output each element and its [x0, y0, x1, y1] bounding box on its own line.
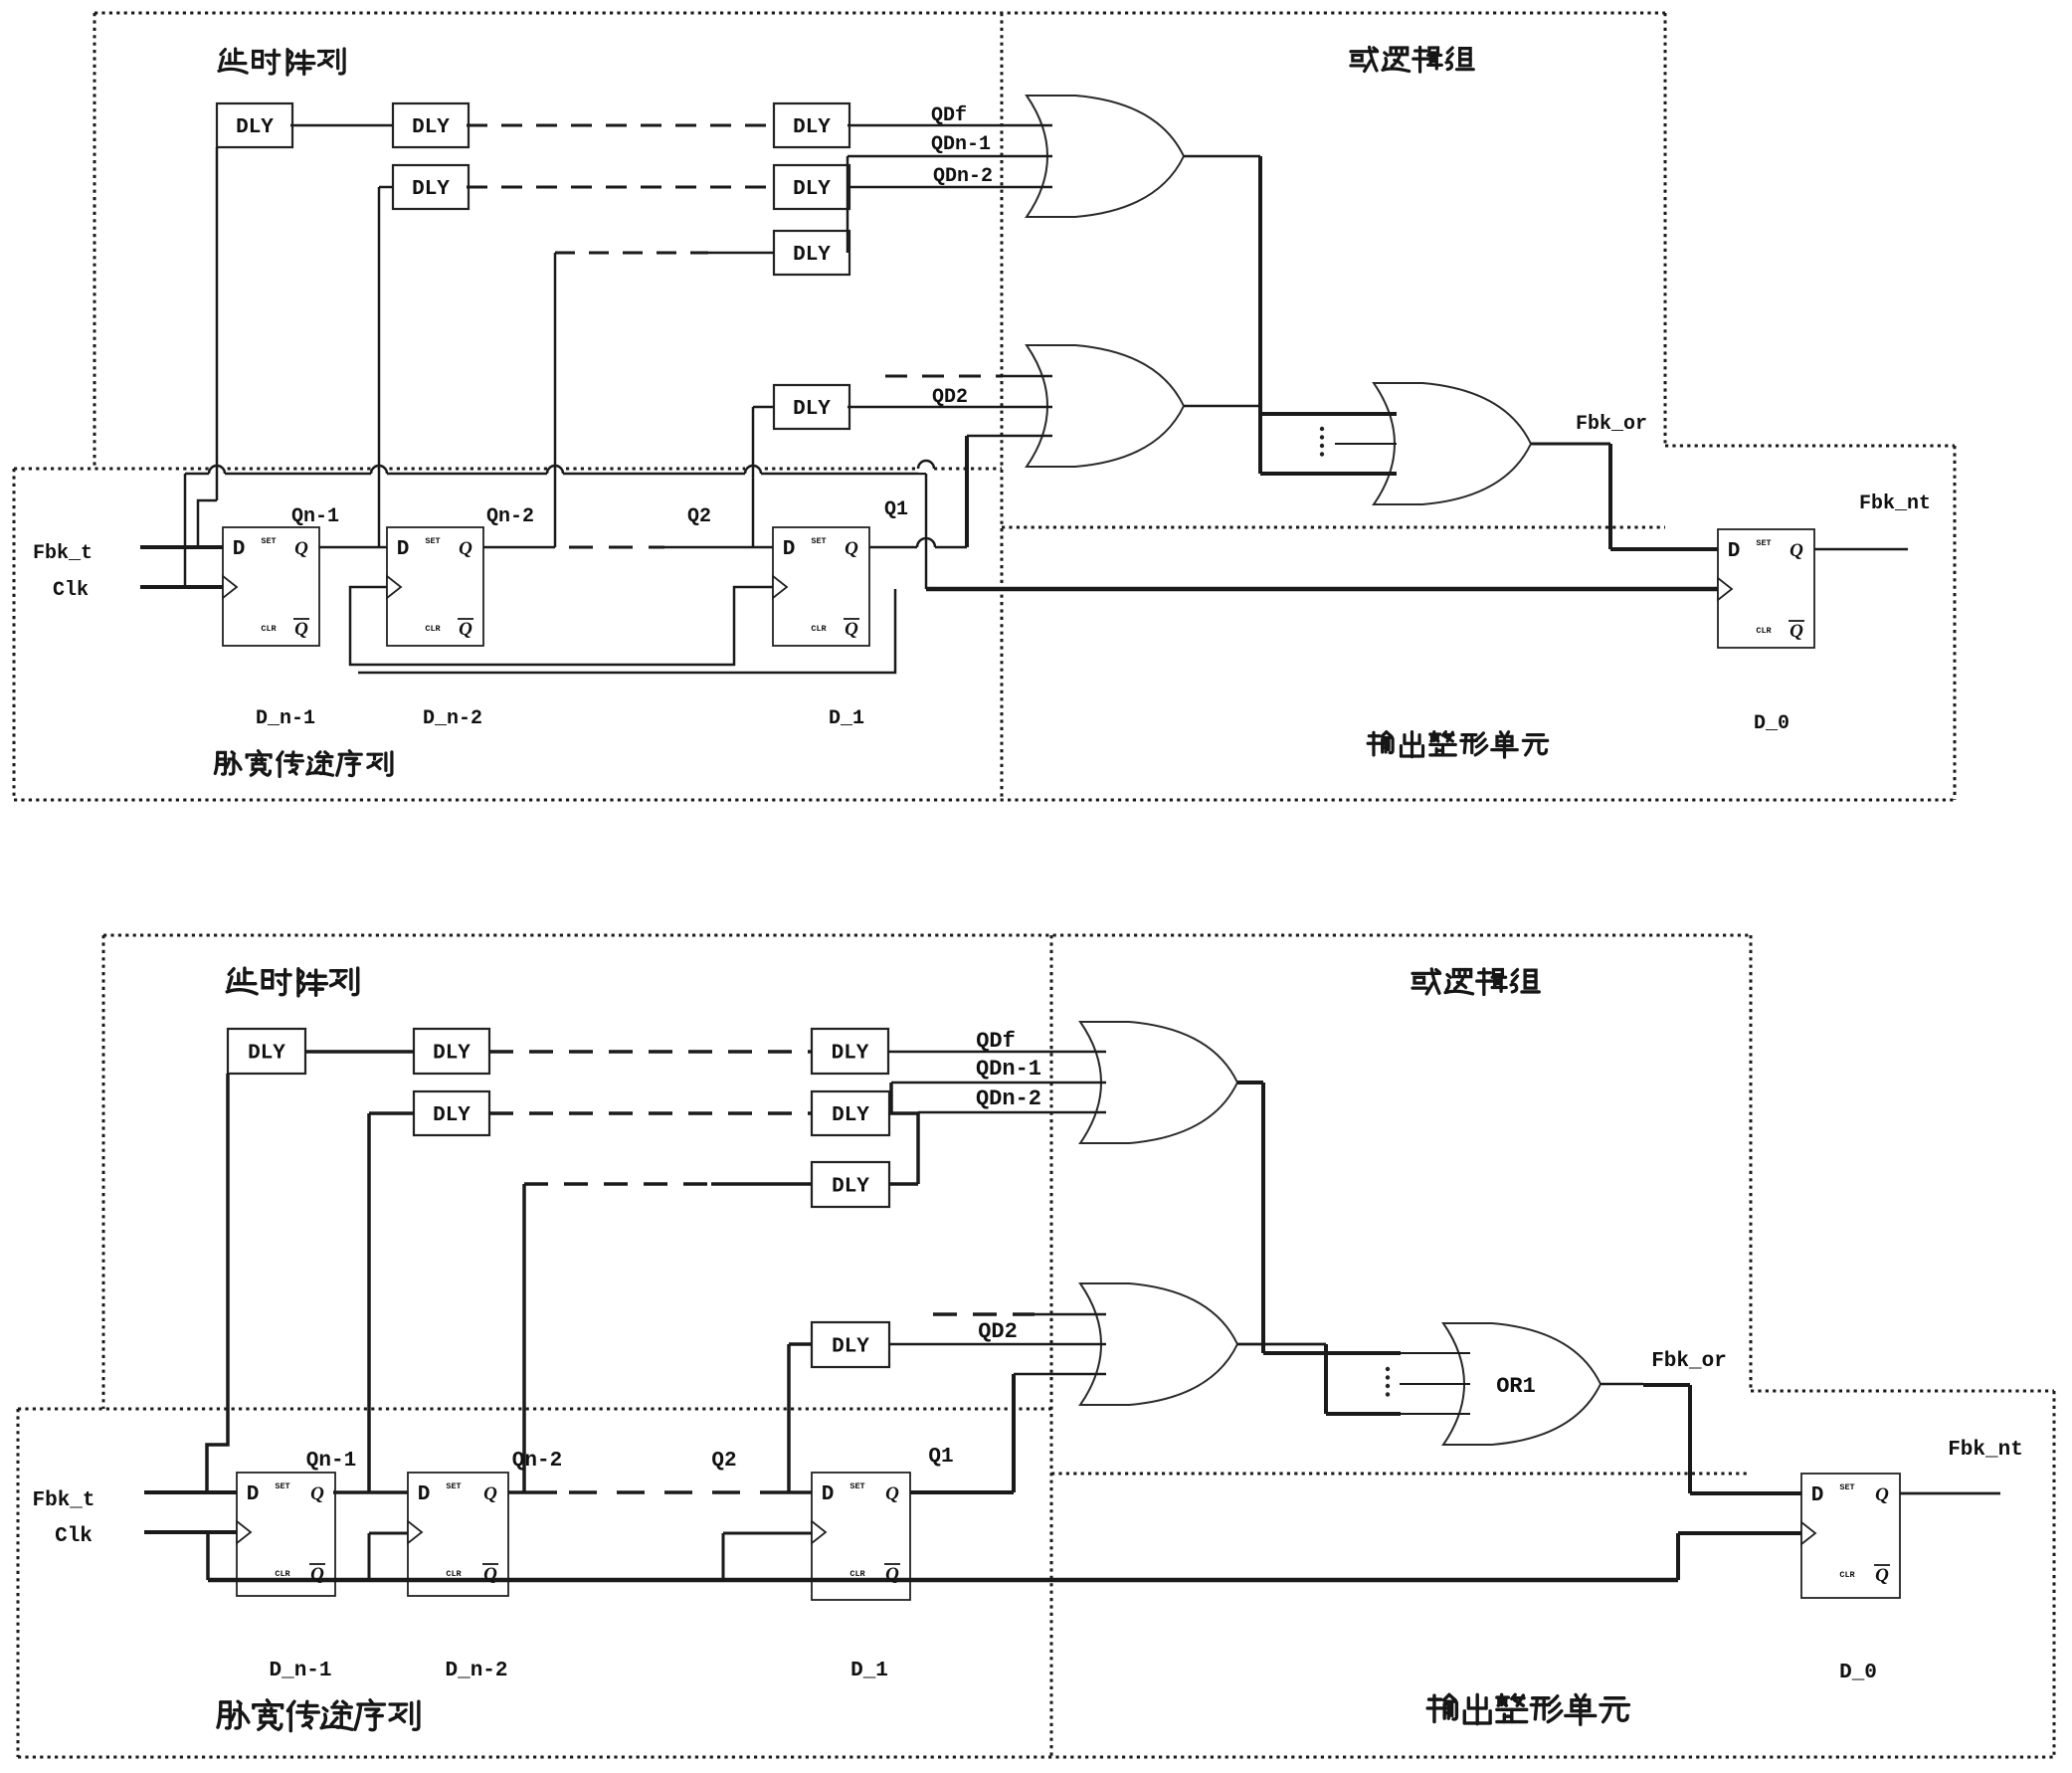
svg-text:Q: Q	[1789, 621, 1803, 642]
svg-text:Q1: Q1	[928, 1446, 953, 1469]
svg-text:CLR: CLR	[275, 1569, 290, 1579]
svg-text:Q1: Q1	[884, 498, 908, 521]
svg-text:SET: SET	[849, 1481, 864, 1491]
svg-text:D_1: D_1	[850, 1660, 888, 1682]
svg-text:CLR: CLR	[261, 624, 277, 634]
svg-text:QDf: QDf	[931, 104, 967, 127]
svg-text:OR1: OR1	[1496, 1374, 1536, 1399]
svg-text:DLY: DLY	[793, 116, 831, 139]
svg-text:QDn-2: QDn-2	[976, 1086, 1041, 1111]
svg-text:D_0: D_0	[1754, 712, 1789, 735]
svg-text:DLY: DLY	[412, 178, 450, 201]
svg-text:SET: SET	[446, 1481, 461, 1491]
svg-text:SET: SET	[1839, 1482, 1854, 1492]
svg-text:Clk: Clk	[53, 579, 89, 602]
svg-text:D: D	[397, 538, 410, 561]
svg-text:Q: Q	[459, 619, 472, 640]
svg-text:DLY: DLY	[832, 1176, 869, 1199]
svg-text:D_0: D_0	[1839, 1662, 1877, 1684]
svg-text:SET: SET	[261, 536, 276, 546]
svg-text:Fbk_t: Fbk_t	[32, 1489, 94, 1512]
svg-text:SET: SET	[1756, 538, 1771, 548]
svg-text:Q: Q	[1875, 1565, 1889, 1586]
svg-text:CLR: CLR	[1839, 1570, 1855, 1580]
svg-text:D: D	[418, 1483, 431, 1506]
svg-text:SET: SET	[811, 536, 826, 546]
svg-text:DLY: DLY	[412, 116, 450, 139]
svg-text:DLY: DLY	[793, 398, 831, 421]
svg-text:SET: SET	[275, 1481, 289, 1491]
svg-text:D: D	[783, 538, 796, 561]
svg-text:Qn-1: Qn-1	[306, 1450, 356, 1473]
svg-text:CLR: CLR	[425, 624, 441, 634]
svg-text:Q: Q	[310, 1564, 324, 1585]
svg-text:Q: Q	[294, 619, 308, 640]
svg-text:Q: Q	[885, 1564, 899, 1585]
svg-text:Fbk_t: Fbk_t	[33, 542, 93, 565]
svg-text:Qn-2: Qn-2	[486, 505, 534, 528]
svg-text:Q: Q	[885, 1483, 899, 1504]
svg-text:Qn-2: Qn-2	[512, 1450, 562, 1473]
svg-text:SET: SET	[425, 536, 440, 546]
svg-text:Q: Q	[294, 538, 308, 559]
svg-text:Q: Q	[310, 1483, 324, 1504]
svg-text:Fbk_nt: Fbk_nt	[1859, 492, 1931, 515]
svg-text:Q2: Q2	[711, 1450, 736, 1473]
svg-text:Q: Q	[1875, 1484, 1889, 1505]
svg-text:DLY: DLY	[248, 1043, 285, 1066]
svg-text:D_1: D_1	[829, 707, 864, 730]
svg-text:QDn-1: QDn-1	[976, 1057, 1041, 1082]
svg-text:DLY: DLY	[793, 178, 831, 201]
svg-text:DLY: DLY	[793, 244, 831, 267]
svg-text:DLY: DLY	[832, 1104, 869, 1127]
svg-text:Clk: Clk	[55, 1525, 93, 1548]
svg-text:D_n-2: D_n-2	[445, 1660, 507, 1682]
svg-text:D: D	[247, 1483, 260, 1506]
svg-text:D: D	[233, 538, 246, 561]
svg-text:Fbk_or: Fbk_or	[1651, 1350, 1727, 1373]
svg-text:Q: Q	[459, 538, 472, 559]
svg-text:CLR: CLR	[849, 1569, 865, 1579]
svg-text:CLR: CLR	[446, 1569, 462, 1579]
svg-text:D_n-1: D_n-1	[256, 707, 315, 730]
svg-text:QDf: QDf	[976, 1029, 1016, 1054]
svg-text:QDn-1: QDn-1	[931, 133, 991, 156]
svg-text:Fbk_nt: Fbk_nt	[1948, 1439, 2023, 1462]
svg-text:QD2: QD2	[932, 386, 968, 409]
svg-text:Q: Q	[845, 538, 858, 559]
svg-text:DLY: DLY	[832, 1336, 869, 1359]
svg-text:Q: Q	[845, 619, 858, 640]
svg-text:DLY: DLY	[236, 116, 274, 139]
svg-text:DLY: DLY	[832, 1043, 869, 1066]
svg-text:DLY: DLY	[433, 1104, 471, 1127]
svg-text:Q: Q	[483, 1564, 497, 1585]
svg-text:Fbk_or: Fbk_or	[1576, 413, 1647, 436]
svg-text:CLR: CLR	[1756, 626, 1772, 636]
svg-text:Q2: Q2	[687, 505, 711, 528]
svg-text:D: D	[1728, 540, 1741, 563]
svg-text:Q: Q	[1789, 540, 1803, 561]
svg-text:Q: Q	[483, 1483, 497, 1504]
svg-text:QDn-2: QDn-2	[933, 165, 993, 188]
svg-text:DLY: DLY	[433, 1043, 471, 1066]
svg-text:D_n-1: D_n-1	[269, 1660, 331, 1682]
svg-text:QD2: QD2	[978, 1319, 1018, 1344]
svg-text:D_n-2: D_n-2	[423, 707, 482, 730]
svg-text:CLR: CLR	[811, 624, 827, 634]
svg-text:D: D	[1811, 1484, 1824, 1507]
svg-text:D: D	[822, 1483, 835, 1506]
svg-text:Qn-1: Qn-1	[291, 505, 339, 528]
